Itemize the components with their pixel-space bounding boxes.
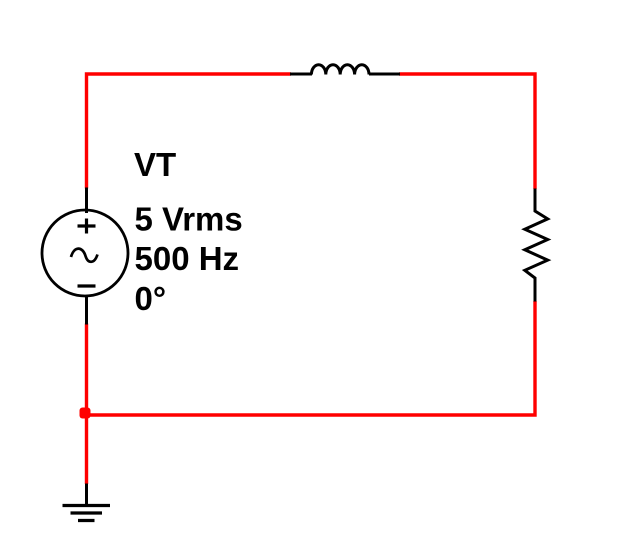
- AC source VT circle: [42, 210, 128, 296]
- wire source bottom black lead: [85, 295, 88, 325]
- resistor R1 (top lead, zigzag, bottom lead): [525, 189, 548, 302]
- inductor L1 right lead: [369, 73, 400, 76]
- AC source minus sign: [78, 284, 96, 287]
- wire bottom-right red segment (resistor bottom to corner, along bottom to junction): [85, 301, 535, 415]
- wire source top black lead: [85, 188, 88, 214]
- wire left-bottom red segment (source bottom to ground stub, through junction): [85, 324, 88, 485]
- wire top-left red segment (left vertical + top horizontal to inductor): [87, 74, 292, 189]
- AC source plus sign: [78, 219, 96, 234]
- node junction dot: [80, 408, 91, 419]
- ground symbol: [63, 506, 111, 521]
- inductor L1 left lead: [290, 73, 312, 76]
- svg-text:500 Hz: 500 Hz: [135, 240, 240, 277]
- wire ground black stub: [85, 484, 88, 507]
- inductor L1 coil: [311, 65, 369, 75]
- svg-text:VT: VT: [134, 146, 176, 183]
- AC source sine symbol: [71, 249, 98, 262]
- wire top-right red segment (inductor to top-right corner down to resistor): [399, 74, 535, 189]
- svg-text:0°: 0°: [135, 280, 167, 317]
- svg-text:5 Vrms: 5 Vrms: [135, 200, 243, 237]
